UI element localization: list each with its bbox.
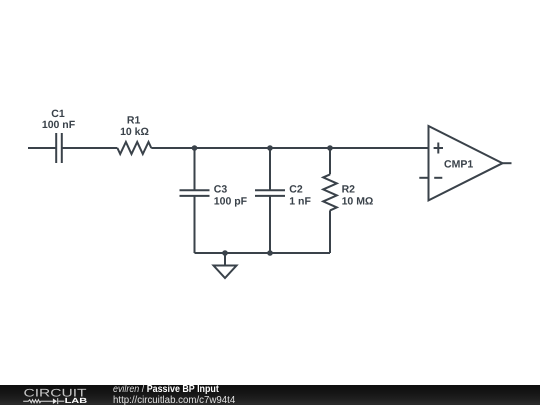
wire C1 to R1 [62, 147, 118, 149]
node junction ground/bottom [222, 250, 228, 256]
wire R2 branch upper [329, 148, 331, 174]
pin plus of CMP1 [434, 143, 443, 154]
pin minus of CMP1 [434, 177, 442, 179]
footer bar [0, 385, 540, 405]
op-amp CMP1 body [429, 126, 503, 200]
node junction R2/top [327, 145, 333, 151]
CircuitLab logo [0, 385, 100, 405]
wire R2 branch lower [329, 210, 331, 253]
resistor R1 [117, 142, 151, 154]
svg-text:1 nF: 1 nF [289, 196, 311, 208]
svg-text:100 nF: 100 nF [42, 119, 76, 131]
svg-text:10 kΩ: 10 kΩ [120, 126, 149, 138]
node junction C2/top [267, 145, 273, 151]
svg-text:C2: C2 [289, 184, 303, 196]
wire bottom rail [195, 252, 331, 254]
svg-text:R1: R1 [127, 114, 141, 126]
svg-text:LAB: LAB [65, 396, 88, 405]
wire C3 branch lower [194, 196, 196, 253]
svg-text:R2: R2 [342, 184, 356, 196]
capacitor C3 [180, 190, 210, 196]
capacitor C1 [56, 133, 62, 163]
wire C2 branch lower [269, 196, 271, 253]
node junction C2/bottom [267, 250, 273, 256]
resistor R2 [323, 174, 337, 210]
ground [214, 266, 237, 279]
wire C2 branch upper [269, 148, 271, 190]
wire R1 to CMP1 plus input [151, 147, 428, 149]
wire CMP1 minus input stub [419, 177, 428, 179]
node junction C3/top [192, 145, 198, 151]
wire CMP1 output [503, 162, 512, 164]
svg-text:CMP1: CMP1 [444, 159, 473, 171]
svg-text:100 pF: 100 pF [214, 196, 248, 208]
svg-text:C3: C3 [214, 184, 228, 196]
svg-text:10 MΩ: 10 MΩ [342, 196, 374, 208]
wire ground stub [224, 253, 226, 266]
wire input to C1 [28, 147, 56, 149]
wire C3 branch upper [194, 148, 196, 190]
capacitor C2 [255, 190, 285, 196]
